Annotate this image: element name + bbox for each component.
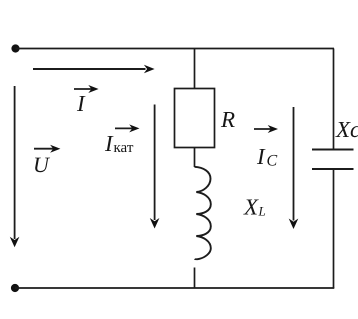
resistor R body (175, 89, 215, 148)
vector bar over Ikat (115, 127, 133, 129)
svg-text:R: R (220, 107, 235, 132)
wire right upper (333, 49, 335, 150)
vector bar over U (34, 148, 54, 150)
inductor XL coil (195, 167, 211, 259)
vector bar over I (74, 88, 92, 90)
vector bar over IC (254, 128, 271, 130)
terminal dot top-left (11, 44, 19, 52)
arrow U (left, downward) (14, 86, 16, 239)
svg-text:L: L (258, 204, 266, 219)
arrow IC (capacitor branch, downward) (293, 107, 295, 221)
svg-text:I: I (256, 144, 266, 169)
wire coil to bottom (194, 268, 196, 289)
wire right lower (333, 169, 335, 288)
wire resistor to coil (194, 148, 196, 168)
arrow Ikat (middle branch, downward) (154, 105, 156, 221)
svg-text:X: X (243, 195, 259, 220)
svg-text:кат: кат (114, 140, 134, 156)
wire top horizontal (16, 48, 335, 50)
arrow I main (top, rightward) (33, 68, 146, 70)
svg-text:I: I (76, 91, 86, 116)
wire middle branch top (194, 49, 196, 89)
svg-text:I: I (104, 131, 114, 156)
capacitor Xc top plate (312, 149, 354, 151)
svg-text:U: U (33, 152, 51, 177)
capacitor Xc bottom plate (312, 168, 354, 170)
svg-text:Xc: Xc (335, 117, 358, 142)
terminal dot bottom-left (11, 284, 19, 292)
svg-text:C: C (267, 153, 278, 170)
wire bottom horizontal (15, 287, 334, 289)
